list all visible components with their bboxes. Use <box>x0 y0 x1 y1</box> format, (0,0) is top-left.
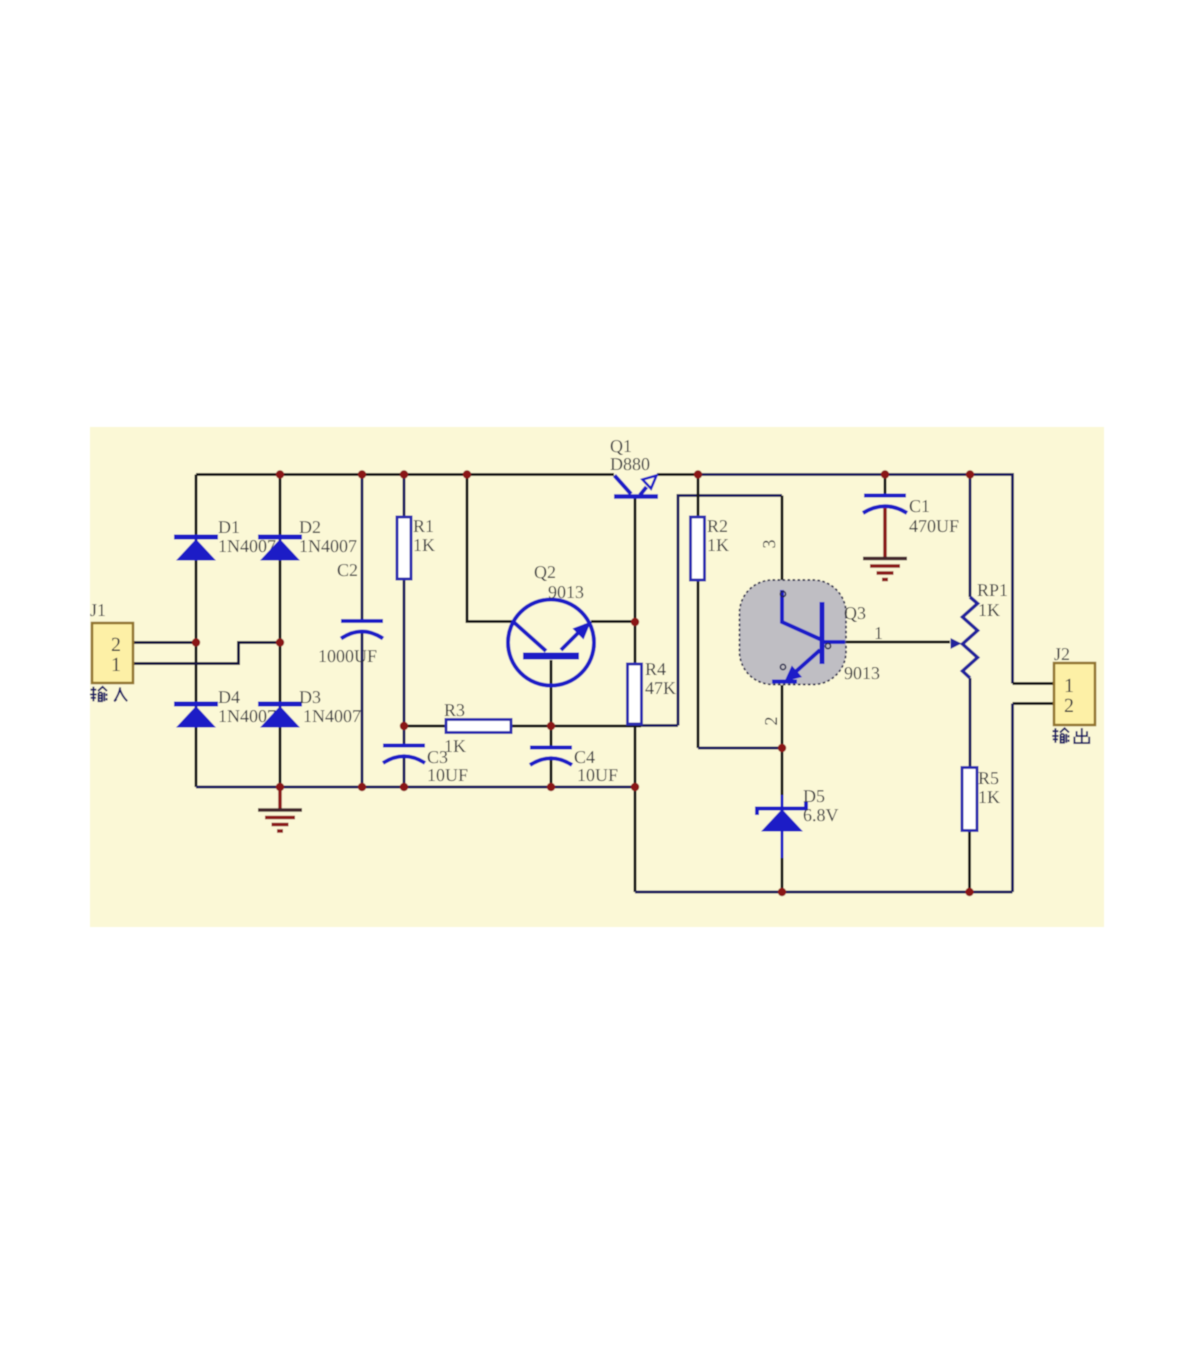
svg-text:R1: R1 <box>413 516 434 536</box>
connector J1 <box>92 623 133 683</box>
diode D3 <box>258 704 302 728</box>
svg-text:9013: 9013 <box>844 663 880 683</box>
svg-text:R2: R2 <box>707 516 728 536</box>
junction output rail / RP1 <box>966 470 974 478</box>
svg-text:2: 2 <box>111 634 121 656</box>
wire loop to Q3 pin3 <box>641 496 782 726</box>
svg-text:3: 3 <box>759 540 779 549</box>
resistor R3 <box>446 720 511 733</box>
svg-text:470UF: 470UF <box>909 516 959 536</box>
wire R4 leads <box>634 622 637 726</box>
svg-text:RP1: RP1 <box>977 580 1008 600</box>
wire Q2 base stub <box>550 660 553 787</box>
junction top bus / Q2 collector <box>463 470 471 478</box>
junction Q2 base / R3 / C4 <box>547 722 555 730</box>
wire R5 bottom lead <box>968 831 971 892</box>
wire base row R3 <box>404 725 641 728</box>
wire left ground bus <box>196 786 635 789</box>
connector J2 <box>1054 663 1095 725</box>
wire Q3 pin1 to RP1 wiper <box>845 641 950 644</box>
capacitor C1 <box>863 496 907 514</box>
junction output rail / R2 <box>694 470 702 478</box>
junction bottom bus / R5 <box>965 888 973 896</box>
svg-text:D3: D3 <box>299 687 321 707</box>
capacitor C3 <box>383 746 425 764</box>
wire D2/D3 column <box>279 475 282 788</box>
svg-text:2: 2 <box>1064 695 1074 717</box>
svg-text:C2: C2 <box>337 560 358 580</box>
schematic background sheet <box>90 427 1104 927</box>
svg-text:1K: 1K <box>707 535 729 555</box>
svg-text:1: 1 <box>111 654 121 676</box>
junction ground bus / D3 <box>276 783 284 791</box>
wire RP1 top lead <box>969 475 972 598</box>
wire Q3 pin3 lead <box>781 496 784 593</box>
node dots <box>192 470 974 896</box>
svg-text:1: 1 <box>874 623 883 643</box>
J1 label 输入 (input) <box>90 687 127 702</box>
wire Q2 emitter to node <box>591 620 635 623</box>
wire Q3 pin2 lead <box>781 685 784 748</box>
svg-text:C1: C1 <box>909 496 930 516</box>
resistor R2 <box>691 517 705 580</box>
svg-text:C4: C4 <box>574 747 595 767</box>
svg-text:2: 2 <box>761 717 781 726</box>
svg-text:1K: 1K <box>978 600 1000 620</box>
wire J2 pin1 row <box>1013 682 1055 685</box>
svg-text:R5: R5 <box>978 768 999 788</box>
capacitor C2 <box>341 621 383 639</box>
wire R1/C3 column <box>403 475 406 788</box>
wire J1 pin1 with jog <box>133 643 280 664</box>
wire C1 lead <box>884 475 887 496</box>
svg-text:J1: J1 <box>90 600 106 620</box>
svg-text:D880: D880 <box>610 454 650 474</box>
wire RP1 to R5 <box>969 678 972 768</box>
wire bottom bus <box>635 891 1013 894</box>
svg-text:D5: D5 <box>803 786 825 806</box>
wire Q2 collector <box>467 475 514 622</box>
diode D2 <box>258 537 302 561</box>
diode D4 <box>174 704 218 728</box>
svg-text:1N4007: 1N4007 <box>303 706 361 726</box>
ground (bridge) stem <box>278 787 282 809</box>
transistor Q1 <box>614 476 658 497</box>
svg-text:R4: R4 <box>645 659 666 679</box>
junction ground bus / C3 <box>400 783 408 791</box>
potentiometer RP1 <box>951 597 978 678</box>
wire node to lower bus <box>634 726 637 892</box>
svg-text:1K: 1K <box>413 535 435 555</box>
junction ground bus / down wire <box>631 783 639 791</box>
junction top bus / C2 <box>358 470 366 478</box>
svg-text:1000UF: 1000UF <box>318 646 377 666</box>
ground (bridge) <box>258 810 302 831</box>
svg-text:Q3: Q3 <box>844 603 866 623</box>
svg-text:Q2: Q2 <box>534 562 556 582</box>
svg-text:9013: 9013 <box>548 582 584 602</box>
svg-text:J2: J2 <box>1054 644 1070 664</box>
wire D5 leads <box>781 748 784 892</box>
diode D1 <box>174 537 218 561</box>
junction output rail / C1 <box>881 470 889 478</box>
svg-text:R3: R3 <box>444 700 465 720</box>
wire Q1 base column <box>634 497 637 622</box>
junction Q2 emitter / Q1 base / R4 <box>631 618 639 626</box>
junction ground bus / C2 <box>358 783 366 791</box>
junction R1 / R3 / C3 <box>400 722 408 730</box>
capacitor C4 <box>530 748 572 766</box>
wire top bus left (supply rail to Q1 collector) <box>196 473 614 476</box>
transistor Q3 package <box>740 580 847 685</box>
zener diode D5 <box>757 802 806 832</box>
svg-text:10UF: 10UF <box>427 765 468 785</box>
svg-text:6.8V: 6.8V <box>803 805 839 825</box>
wire J2 pin2 vertical <box>1011 704 1014 893</box>
svg-text:10UF: 10UF <box>577 765 618 785</box>
svg-text:D1: D1 <box>218 517 240 537</box>
junction top bus / R1 <box>400 470 408 478</box>
svg-text:C3: C3 <box>427 747 448 767</box>
J2 label 输出 (output) <box>1052 728 1089 743</box>
resistor R1 <box>397 517 411 579</box>
wire top bus right (output rail) <box>657 473 698 476</box>
wire C2 column <box>361 475 364 788</box>
junction J1 pin2 / D1-D4 column <box>192 638 200 646</box>
resistor R4 <box>628 664 642 724</box>
wire J2 pin2 row <box>1013 702 1055 705</box>
svg-text:D4: D4 <box>218 687 240 707</box>
resistor R5 <box>962 768 977 831</box>
svg-text:1N4007: 1N4007 <box>299 536 357 556</box>
svg-text:D2: D2 <box>299 517 321 537</box>
junction bottom bus / D5 <box>778 888 786 896</box>
svg-text:1K: 1K <box>978 787 1000 807</box>
junction R2 / Q3 pin2 / D5 <box>778 744 786 752</box>
junction ground bus / C4 <box>547 783 555 791</box>
junction J1 pin1 / D2-D3 column <box>276 638 284 646</box>
svg-text:Q1: Q1 <box>610 436 632 456</box>
C1 ground stem <box>883 508 887 558</box>
wire D1/D4 column <box>195 475 198 788</box>
ground (C1) <box>863 559 907 580</box>
wire R2 leads <box>697 475 700 749</box>
transistor Q2 <box>508 600 594 686</box>
wire R2 to Q3 pin2 node <box>698 747 782 750</box>
junction top bus / D2-D3 column <box>276 470 284 478</box>
svg-text:47K: 47K <box>645 678 676 698</box>
wire J1 pin2 <box>133 641 196 644</box>
svg-text:1: 1 <box>1064 675 1074 697</box>
